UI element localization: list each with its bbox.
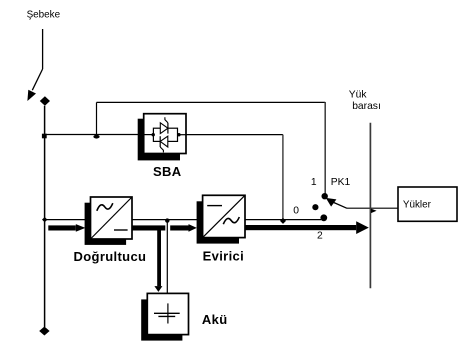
SBA interior: lead from right node	[179, 134, 186, 136]
svg-text:2: 2	[317, 231, 323, 242]
arrowhead: big output arrow at load bus	[356, 221, 369, 234]
Evirici diagonal	[203, 195, 245, 237]
SBA block box	[144, 114, 186, 154]
wire: thin inverter output line	[45, 219, 321, 221]
switch PK1: contact 2 dot	[320, 214, 327, 221]
wire: SBA output to bypass drop	[186, 134, 283, 136]
wire: thick power bar rectifier to inverter (right part)	[170, 225, 188, 230]
node: diamond where bypass drop meets inverter line	[280, 218, 286, 224]
node: utility input terminal (diamond)	[40, 96, 50, 106]
wire: thick power bar into rectifier	[48, 225, 76, 230]
SBA block shadow	[138, 119, 180, 161]
junction: dot at bypass riser tap	[93, 135, 99, 139]
SBA interior: left node dot	[152, 133, 155, 136]
switch PK1: arm arrowhead toward contact 1	[326, 198, 337, 207]
wire: bypass drop to inverter line	[282, 135, 284, 220]
switch PK1: contact 0 dot	[312, 204, 318, 210]
load bus: vertical line (Yük barası)	[369, 123, 371, 289]
Akü block box	[147, 293, 188, 334]
svg-text:Şebeke: Şebeke	[27, 10, 61, 21]
Doğrultucu block box	[91, 197, 133, 239]
junction arrow on load bus feeding Yükler	[371, 209, 377, 214]
switch PK1: arm wire	[334, 202, 348, 208]
svg-text:Akü: Akü	[202, 312, 228, 327]
wire: drop to PK1 contact 1	[324, 102, 326, 194]
Evirici AC tilde	[223, 217, 239, 224]
wire: thick power bar rectifier to inverter (left part)	[132, 225, 165, 230]
svg-text:SBA: SBA	[153, 164, 182, 179]
Akü (battery) block shadow	[141, 299, 182, 340]
wire: switch common to Yükler	[347, 207, 398, 209]
svg-text:Doğrultucu: Doğrultucu	[74, 249, 147, 264]
arrowhead into rectifier	[76, 224, 86, 232]
junction: square tap on main vertical	[42, 134, 47, 139]
node: bottom terminal (diamond)	[39, 327, 49, 336]
Doğrultucu AC tilde	[97, 203, 113, 211]
battery symbol: short plate	[158, 315, 175, 317]
svg-text:Evirici: Evirici	[203, 248, 244, 263]
Evirici DC dash	[207, 205, 222, 207]
switch PK1: contact 1 dot	[322, 193, 328, 199]
Doğrultucu (rectifier) block shadow	[85, 203, 127, 245]
Evirici (inverter) block shadow	[197, 201, 239, 243]
SBA interior: lead to left node	[144, 134, 153, 136]
svg-text:0: 0	[293, 206, 299, 217]
junction: dot on inverter line at battery tap	[165, 218, 169, 222]
arrowhead into inverter	[189, 224, 197, 232]
wire: top bypass line	[97, 101, 326, 103]
wire: utility drop from Şebeke label	[42, 29, 44, 69]
SBA interior: loop rectangle	[153, 128, 177, 141]
battery symbol: center lead	[167, 303, 169, 323]
wire: feed to SBA (horizontal)	[45, 134, 144, 136]
node: diamond junction on inverter line at main vertical	[42, 217, 47, 222]
Yükler (loads) box	[398, 187, 457, 221]
Doğrultucu diagonal	[91, 197, 133, 239]
svg-text:Yük: Yük	[349, 90, 368, 101]
switch: utility disconnect blade (diagonal with arrowhead)	[32, 69, 42, 90]
Evirici block box	[203, 195, 245, 237]
thyristor (bottom, pointing left)	[160, 136, 168, 147]
Doğrultucu DC dash	[114, 229, 128, 231]
arrowhead into battery	[154, 286, 162, 292]
svg-text:1: 1	[311, 177, 317, 188]
wire: thick drop to battery (Akü)	[157, 228, 161, 286]
wire: thick output bar from inverter to load bus	[245, 225, 356, 230]
wire: main left vertical feed	[44, 106, 46, 327]
thyristor (top, pointing right)	[160, 123, 168, 134]
svg-text:Yükler: Yükler	[403, 200, 432, 211]
wire: riser to top bypass line	[96, 102, 98, 134]
SBA interior: right node dot	[177, 133, 180, 136]
wire: thin drop from inverter line to battery	[166, 221, 168, 294]
svg-text:barası: barası	[352, 101, 381, 112]
battery symbol: long plate	[154, 312, 180, 314]
svg-text:PK1: PK1	[331, 177, 351, 188]
